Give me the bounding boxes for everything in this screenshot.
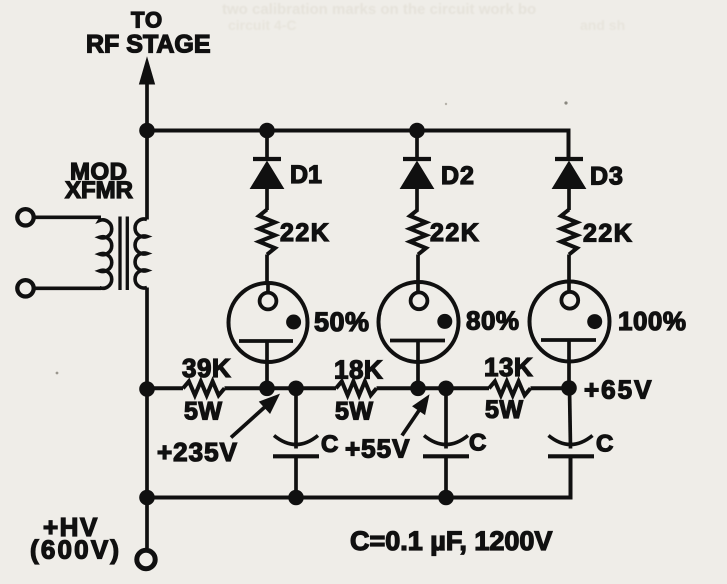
- resistor R6 13K 5W: [489, 381, 531, 395]
- svg-text:+55V: +55V: [345, 434, 410, 464]
- svg-text:100%: 100%: [618, 306, 687, 336]
- node: top bus at main line: [139, 123, 155, 139]
- wire: R3 to V3: [567, 255, 571, 285]
- diode D3: [553, 158, 586, 211]
- wire: R1 to V1: [265, 255, 269, 285]
- svg-text:22K: 22K: [430, 219, 480, 247]
- svg-text:5W: 5W: [485, 396, 524, 424]
- arrow: +55V callout: [402, 411, 419, 436]
- svg-text:D2: D2: [441, 162, 475, 190]
- svg-text:5W: 5W: [335, 398, 374, 426]
- wire: middle bus segment 4: [531, 386, 570, 390]
- svg-text:circuit 4-C: circuit 4-C: [228, 17, 296, 33]
- wire: primary bottom lead: [35, 286, 102, 290]
- diode D2: [401, 131, 434, 211]
- wire: top bus: [147, 131, 569, 158]
- paper speck: [56, 372, 59, 375]
- node: middle bus at V2 cathode: [410, 381, 426, 397]
- tube V3 (100%): [530, 282, 610, 389]
- paper speck: [564, 101, 567, 104]
- wire: bottom bus: [147, 456, 571, 497]
- arrow: +235V callout: [231, 406, 267, 438]
- svg-text:+65V: +65V: [584, 375, 653, 405]
- bleed-through text line 2: [228, 17, 625, 33]
- svg-text:C: C: [469, 430, 486, 457]
- svg-text:D1: D1: [290, 161, 322, 189]
- svg-text:18K: 18K: [334, 355, 383, 385]
- svg-text:80%: 80%: [466, 306, 520, 336]
- svg-text:RF STAGE: RF STAGE: [86, 31, 211, 59]
- node: middle bus at V1 cathode: [259, 381, 275, 397]
- wire: primary top lead: [35, 215, 102, 219]
- resistor R3 22K: [561, 210, 577, 255]
- terminal: +HV input: [137, 550, 155, 568]
- capacitor C2: [423, 388, 469, 497]
- transformer T1 primary terminal (bottom): [17, 280, 33, 296]
- node: top bus at D1: [259, 123, 275, 139]
- svg-text:two calibration marks on the c: two calibration marks on the circuit wor…: [222, 1, 536, 18]
- resistor R5 18K 5W: [336, 381, 377, 395]
- wire: middle bus segment 2: [225, 386, 337, 390]
- svg-text:(600V): (600V): [30, 535, 121, 565]
- resistor R4 39K 5W: [183, 381, 225, 395]
- svg-text:C: C: [596, 431, 613, 458]
- svg-text:22K: 22K: [583, 220, 633, 248]
- transformer T1 secondary winding: [135, 219, 147, 288]
- arrow to RF stage: [140, 58, 155, 84]
- transformer T1 primary winding: [100, 218, 112, 288]
- svg-text:and sh: and sh: [580, 17, 625, 33]
- node: middle bus at C1: [288, 381, 304, 397]
- svg-text:5W: 5W: [184, 398, 223, 426]
- wire: main vertical line top (RF stage lead): [145, 81, 149, 220]
- svg-text:XFMR: XFMR: [65, 177, 133, 204]
- svg-text:39K: 39K: [182, 353, 231, 383]
- transformer T1 core: [120, 217, 127, 291]
- svg-text:C: C: [321, 431, 338, 458]
- transformer T1 MOD XFMR primary terminal (top): [17, 209, 33, 225]
- svg-text:D3: D3: [590, 163, 624, 191]
- wire: middle bus segment 3: [377, 386, 490, 390]
- svg-text:22K: 22K: [280, 219, 330, 247]
- wire: main vertical line below transformer secondary: [145, 288, 149, 549]
- capacitor C1: [273, 388, 319, 497]
- wire: middle bus segment 1: [147, 386, 183, 390]
- node: bottom bus at C2: [438, 490, 454, 506]
- svg-text:C=0.1 µF, 1200V: C=0.1 µF, 1200V: [350, 526, 552, 556]
- paper speck: [445, 103, 447, 105]
- node: top bus at D2: [409, 123, 425, 139]
- wire: R2 to V2: [416, 255, 420, 285]
- tube V1 (50%): [229, 283, 308, 388]
- svg-text:13K: 13K: [484, 352, 533, 382]
- tube V2 (80%): [379, 282, 459, 388]
- node: middle bus at main line: [139, 381, 155, 397]
- bleed-through text line 1: [222, 1, 536, 18]
- capacitor C3: [548, 388, 594, 498]
- node: bottom bus at main line: [139, 490, 155, 506]
- node: bottom bus at C1: [288, 490, 304, 506]
- resistor R2 22K: [410, 210, 426, 255]
- node: +65V at V3 cathode: [561, 380, 577, 396]
- svg-text:TO: TO: [131, 8, 163, 33]
- svg-text:+235V: +235V: [157, 437, 238, 467]
- svg-text:50%: 50%: [314, 307, 370, 337]
- resistor R1 22K: [259, 210, 275, 255]
- diode D1: [251, 131, 284, 211]
- node: middle bus at C2: [438, 381, 454, 397]
